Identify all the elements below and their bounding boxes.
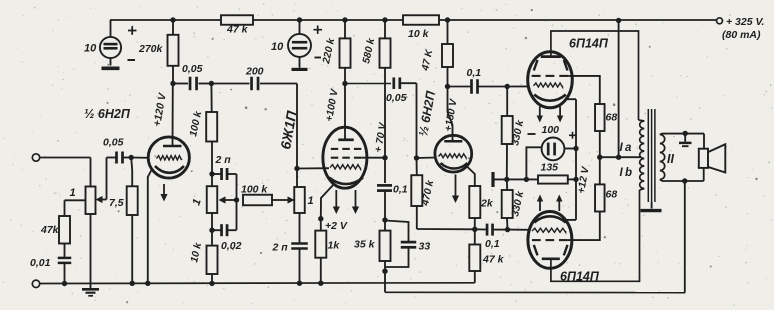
- svg-text:6П14П: 6П14П: [569, 37, 609, 51]
- speaker cone: [708, 144, 725, 172]
- ground of cap 10 #1: [102, 67, 120, 71]
- suppressor grid of 6Ж1П: [331, 148, 362, 150]
- node grid lower 6П14П: [505, 227, 510, 232]
- node screen 6Ж1П: [382, 155, 387, 160]
- cathode wire upper: [566, 98, 576, 100]
- resistor 100k (vertical): [188, 84, 217, 175]
- label 1/2 6Н2П (V3): [416, 89, 438, 138]
- svg-text:47 k: 47 k: [226, 24, 249, 36]
- wiper of volume pot: [96, 158, 117, 204]
- svg-text:68: 68: [606, 189, 618, 201]
- svg-text:47 k: 47 k: [482, 254, 505, 266]
- node 580k junction: [382, 17, 387, 22]
- node 10k on rail: [209, 281, 214, 286]
- wire grid upper 6П14П: [507, 85, 529, 87]
- node tone top: [209, 171, 214, 176]
- svg-text:+ 325 V.: + 325 V.: [726, 16, 765, 28]
- wire volume pot bottom: [90, 214, 92, 284]
- resistor 100k (horizontal): [241, 184, 272, 206]
- svg-text:0,05: 0,05: [386, 92, 407, 104]
- svg-text:0,1: 0,1: [485, 238, 500, 250]
- node grid upper 6П14П: [505, 84, 510, 89]
- capacitor 0,05 (input): [103, 137, 131, 164]
- node 35k top: [382, 217, 387, 222]
- anode of V3: [444, 140, 462, 143]
- resistor 1k (cathode): [315, 219, 340, 284]
- svg-text:35 k: 35 k: [354, 239, 376, 251]
- svg-text:100: 100: [542, 124, 560, 136]
- node 1k on rail: [318, 281, 323, 286]
- cathode of V1: [155, 166, 184, 173]
- capacitor 2п (upper tone): [212, 154, 237, 200]
- node 100uF minus: [524, 177, 529, 182]
- svg-text:½ 6Н2П: ½ 6Н2П: [84, 107, 131, 121]
- ground core: [641, 202, 662, 211]
- label 6П14П lower: [560, 270, 600, 284]
- heater arrow V3: [452, 175, 459, 204]
- wire feedback bottom: [385, 271, 685, 292]
- potentiometer 1 (volume): [70, 187, 96, 215]
- svg-text:0,02: 0,02: [221, 240, 242, 252]
- screen grid of lower 6П14П: [532, 212, 600, 241]
- svg-text:68: 68: [606, 112, 618, 124]
- transformer primary winding Ia/Ib: [639, 120, 645, 190]
- grid of V1: [157, 156, 182, 160]
- node grid 6Ж1П tap: [294, 166, 299, 171]
- label Ia: [620, 142, 633, 154]
- wire secondary top: [660, 134, 704, 149]
- wire grid lower 6П14П: [508, 229, 530, 231]
- resistor 580k: [361, 20, 390, 68]
- ground main: [82, 284, 99, 296]
- grid of V3: [439, 154, 467, 158]
- wire grid V1: [131, 157, 149, 159]
- label 6Ж1П: [277, 109, 300, 151]
- node tone input: [209, 81, 214, 86]
- svg-text:47k: 47k: [40, 224, 60, 236]
- svg-text:0,05: 0,05: [182, 63, 203, 75]
- resistor 47k (input): [40, 216, 70, 257]
- label +325V: [722, 16, 765, 41]
- label 6П14П upper: [569, 37, 609, 51]
- svg-text:10 k: 10 k: [408, 28, 430, 40]
- svg-text:2 п: 2 п: [272, 242, 289, 254]
- tube 6Ж1П envelope: [323, 127, 367, 188]
- terminal input top: [32, 154, 39, 161]
- cathode of lower 6П14П: [534, 216, 566, 222]
- capacitor 33 (parallel 35k): [385, 221, 430, 268]
- speaker driver: [699, 149, 708, 168]
- svg-text:0,1: 0,1: [467, 67, 482, 79]
- node anode V3 (+150V): [443, 67, 460, 133]
- resistor 47k (anode V3): [420, 20, 453, 73]
- svg-text:10: 10: [84, 43, 97, 55]
- polarity - of cap 10 #2: [315, 57, 322, 59]
- wire 470k to cathode node: [417, 228, 475, 230]
- polarity + of cap 100: [569, 132, 576, 139]
- node HT1 junction: [170, 17, 175, 22]
- capacitor 0,02 (lower tone): [212, 200, 242, 252]
- svg-text:0,1: 0,1: [393, 184, 408, 196]
- wire input: [40, 158, 91, 187]
- resistor 10k (rail decoupling): [403, 15, 439, 40]
- node secondary top ground: [683, 131, 688, 136]
- resistor 470k: [411, 158, 436, 229]
- heater arrows upper 6П14П: [537, 107, 564, 123]
- anode of upper 6П14П: [534, 31, 639, 120]
- potentiometer 1 (tone): [207, 174, 218, 230]
- svg-text:II: II: [667, 152, 674, 166]
- svg-text:0,05: 0,05: [103, 137, 124, 149]
- node feedback takeoff: [682, 178, 687, 183]
- capacitor 0,1 (screen chain): [377, 158, 408, 220]
- node cathode 6Ж1П (+2V): [318, 216, 348, 232]
- label +120V: [151, 91, 169, 127]
- resistor 10k (tone to ground): [189, 230, 217, 283]
- cathode of upper 6П14П: [534, 95, 566, 101]
- svg-text:1: 1: [70, 187, 76, 199]
- node 47k-anode junction: [445, 17, 450, 22]
- cathode wire V3: [467, 167, 475, 187]
- capacitor 0,1 (coupling lower 6П14П): [475, 224, 508, 250]
- polarity + of cap 10 #1: [128, 26, 137, 34]
- control grid of lower 6П14П: [532, 228, 566, 232]
- cathode of 6Ж1П: [329, 178, 363, 185]
- capacitor 10 (electrolytic, second filter): [271, 20, 311, 68]
- resistor 35k: [354, 220, 391, 271]
- node screen junction: [597, 155, 640, 160]
- capacitor 100 (electrolytic cathode): [526, 124, 578, 179]
- heater arrows lower 6П14П: [537, 195, 563, 212]
- transformer core: [648, 109, 655, 202]
- wiper of tone pot: [219, 196, 237, 203]
- wire anode V3: [448, 87, 453, 141]
- wire 135 to bus: [568, 177, 579, 182]
- anode of V1: [163, 84, 182, 147]
- label 1/2 6Н2П: [84, 107, 131, 121]
- svg-text:33: 33: [419, 241, 431, 253]
- capacitor 10 (electrolytic, first filter): [84, 20, 121, 66]
- svg-text:200: 200: [245, 66, 264, 78]
- wire cathode bus (+12V): [576, 99, 592, 220]
- resistor 330k (upper): [502, 87, 527, 180]
- wire 580k to screen node (+70V): [373, 68, 389, 158]
- resistor 2k: [469, 186, 494, 229]
- svg-text:135: 135: [541, 162, 559, 174]
- capacitor 0,05 (coupling to V3): [345, 77, 417, 157]
- capacitor 0,1 (coupling upper 6П14П): [448, 67, 508, 94]
- terminal input bottom: [32, 280, 39, 287]
- svg-text:+2 V: +2 V: [325, 220, 348, 232]
- node tone wiper junction: [234, 197, 239, 202]
- tube lower 6П14П envelope: [528, 212, 572, 269]
- wire secondary bottom: [660, 168, 704, 181]
- ground bar (cathode return): [493, 172, 538, 187]
- wire feedback down: [684, 181, 686, 293]
- ground secondary: [679, 133, 692, 146]
- resistor 135: [538, 162, 568, 184]
- transformer secondary winding II: [660, 135, 665, 180]
- svg-text:b: b: [625, 167, 632, 179]
- cathode of V3: [441, 163, 468, 169]
- svg-text:1k: 1k: [328, 240, 341, 252]
- svg-text:a: a: [625, 142, 632, 154]
- svg-text:7,5: 7,5: [109, 197, 124, 209]
- wire rail middle section: [253, 19, 403, 21]
- wire loudness tap: [65, 200, 86, 216]
- cathode wire V1: [148, 169, 152, 284]
- cathode wire 6Ж1П: [321, 184, 334, 219]
- resistor 68 (upper screen): [595, 104, 617, 157]
- tube V1 1/2 6Н2П envelope: [148, 137, 189, 178]
- resistor 330k (lower): [502, 179, 527, 229]
- control grid of upper 6П14П: [534, 83, 563, 87]
- svg-text:(80 mA): (80 mA): [722, 29, 761, 41]
- node anode V1 (+120V): [170, 81, 175, 86]
- cathode wire lower: [566, 219, 576, 221]
- screen grid of 6Ж1П: [331, 157, 385, 159]
- node 7,5 on rail: [130, 281, 135, 286]
- wire +325 to screen junction: [618, 21, 620, 158]
- tube V3 1/2 6Н2П envelope: [435, 135, 472, 172]
- svg-text:1: 1: [308, 195, 314, 207]
- polarity - of cap 100: [528, 133, 536, 135]
- anode of 6Ж1П: [338, 84, 353, 140]
- node screen/output-transformer junction: [616, 18, 621, 23]
- anode of lower 6П14П: [534, 190, 640, 281]
- wire grid 6Ж1П: [297, 167, 329, 169]
- resistor 7,5 (grid leak): [109, 158, 138, 284]
- resistor 270k: [138, 20, 179, 84]
- tube upper 6П14П envelope: [528, 52, 573, 108]
- svg-text:2 п: 2 п: [215, 154, 232, 166]
- heater arrows 6Ж1П: [333, 190, 359, 214]
- node HT2 junction (cap 10): [297, 17, 302, 22]
- screen grid of upper 6П14П: [532, 76, 600, 104]
- capacitor 0,05 (coupling V1): [173, 63, 211, 90]
- resistor 220k: [321, 20, 351, 84]
- node 0,01 on rail: [62, 281, 67, 286]
- svg-text:2k: 2k: [480, 198, 494, 210]
- polarity + of cap 10 #2: [314, 26, 323, 34]
- ground of cap 10 #2: [292, 68, 308, 71]
- node grid V3: [414, 155, 419, 160]
- resistor 68 (lower screen): [595, 157, 617, 211]
- resistor 47k (rail decoupling): [221, 15, 253, 35]
- control grid of 6Ж1П: [330, 165, 361, 169]
- node grid V1: [129, 155, 134, 160]
- wire +325V rail left section: [110, 19, 221, 21]
- wire rail right section: [439, 19, 716, 21]
- label 1 (tone pot): [190, 197, 203, 207]
- wire 200-cap to pot 1: [296, 84, 298, 188]
- wire ground rail: [40, 282, 475, 285]
- node 330k junction: [504, 177, 509, 182]
- node cathode V1 on rail: [145, 281, 150, 286]
- capacitor 200 (coupling): [211, 66, 297, 91]
- wiper of pot 1 (grid pot): [272, 196, 295, 203]
- node tone bottom: [209, 228, 214, 233]
- node anode 6Ж1П (+100V): [324, 81, 348, 123]
- svg-text:100 k: 100 k: [241, 184, 268, 196]
- polarity - of cap 10 #1: [128, 59, 136, 61]
- svg-text:10: 10: [271, 41, 284, 53]
- terminal +325V: [717, 18, 723, 24]
- label Ib: [620, 167, 633, 179]
- node 35k bottom: [382, 269, 387, 274]
- capacitor 2п (lower, pot to ground): [272, 213, 308, 284]
- wire grid V3: [417, 157, 437, 160]
- node phase splitter: [472, 227, 477, 232]
- svg-text:270k: 270k: [138, 43, 164, 55]
- label II: [667, 152, 674, 166]
- svg-text:0,01: 0,01: [30, 257, 51, 269]
- node 2п on rail: [297, 281, 302, 286]
- resistor 47k (divider): [469, 229, 504, 282]
- potentiometer 1 (grid of 6Ж1П): [294, 187, 313, 213]
- heater arrow V1: [160, 184, 167, 202]
- node 220k junction: [342, 17, 347, 22]
- capacitor 0,01: [30, 257, 71, 284]
- svg-text:6П14П: 6П14П: [560, 270, 600, 284]
